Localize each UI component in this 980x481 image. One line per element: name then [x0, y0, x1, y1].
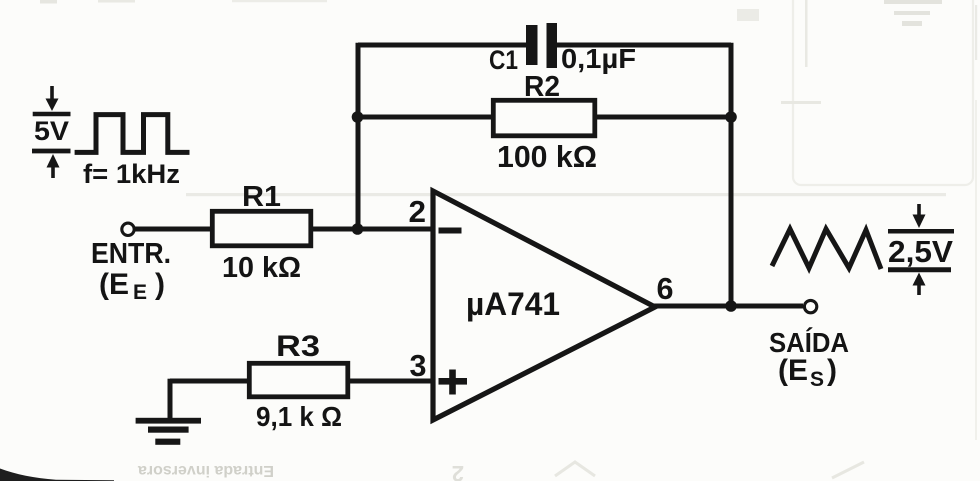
input terminal ENTR	[122, 223, 134, 235]
junction left R2 node	[352, 111, 364, 123]
resistor R1	[212, 211, 310, 246]
resistor R3	[249, 363, 347, 397]
junction right R2 node	[725, 111, 737, 123]
wire: R1 to op-amp pin 2	[311, 227, 433, 232]
svg-text:2: 2	[409, 194, 427, 229]
svg-text:R1: R1	[242, 181, 281, 213]
2,5V bottom bar	[888, 267, 951, 272]
svg-text:2,5V: 2,5V	[888, 234, 953, 269]
wire: feedback top right segment	[557, 43, 731, 48]
5V bottom bar	[32, 149, 71, 154]
faint bleed-through band	[186, 193, 946, 196]
2,5V top bar	[888, 229, 954, 234]
wire: R2 left	[358, 115, 493, 120]
wire: left vertical of feedback loop	[356, 43, 361, 229]
svg-text:): )	[155, 268, 165, 301]
wire: ground to R3	[170, 379, 251, 384]
svg-text:2: 2	[452, 461, 464, 481]
op-amp U1 triangle	[433, 191, 655, 420]
faint top edge marks	[40, 0, 57, 4]
plus sign non-inverting input	[439, 378, 468, 385]
wire: right vertical of feedback loop	[729, 43, 734, 306]
capacitor C1 plates	[526, 25, 538, 65]
svg-text:0,1µF: 0,1µF	[561, 43, 636, 74]
wire: op-amp output	[652, 304, 803, 309]
svg-text:R3: R3	[276, 330, 320, 363]
svg-text:ENTR.: ENTR.	[91, 238, 171, 270]
ground symbol	[136, 418, 201, 424]
faint bleed-through vertical line	[805, 0, 808, 67]
2,5V up arrow	[917, 284, 921, 295]
5V square wave annotation: down arrow	[50, 86, 54, 100]
wire: ground drop	[168, 379, 173, 420]
junction output node	[725, 300, 737, 312]
triangle wave output annotation	[772, 229, 881, 269]
output terminal SAIDA	[804, 300, 816, 312]
svg-text:Entrada inversora: Entrada inversora	[138, 462, 274, 479]
5V top bar	[33, 112, 71, 116]
wire: R2 right	[595, 115, 731, 120]
svg-text:100 kΩ: 100 kΩ	[497, 140, 597, 174]
svg-text:C1: C1	[489, 45, 518, 75]
2,5V down arrow	[917, 204, 921, 216]
wire: input to R1	[135, 227, 212, 232]
5V up arrow	[51, 166, 55, 178]
svg-text:f= 1kHz: f= 1kHz	[83, 159, 180, 189]
svg-text:(E: (E	[778, 354, 808, 387]
wire: R3 to op-amp pin 3	[348, 379, 433, 384]
svg-text:E: E	[133, 281, 147, 304]
page corner shadow bottom left	[0, 469, 114, 481]
svg-text:5V: 5V	[34, 116, 69, 146]
faint bleed-through box top right	[793, 0, 973, 185]
svg-text:(E: (E	[99, 268, 129, 301]
svg-text:): )	[827, 354, 837, 387]
minus sign inverting input	[439, 228, 462, 234]
svg-text:R2: R2	[524, 71, 560, 103]
faint bleed-through slash bottom right	[832, 462, 864, 478]
svg-text:10 kΩ: 10 kΩ	[222, 252, 301, 284]
resistor R2	[493, 100, 595, 136]
faint bleed-through chevron bottom middle	[555, 462, 595, 476]
svg-text:µA741: µA741	[466, 286, 560, 322]
svg-text:S: S	[810, 368, 824, 391]
faint bleed-through smudges top right	[737, 0, 942, 26]
junction node inverting input	[352, 223, 364, 235]
faint right edge noise	[975, 5, 977, 60]
square wave	[75, 115, 190, 153]
svg-text:3: 3	[410, 348, 427, 383]
faint bleed-through text bottom (mirrored)	[138, 462, 274, 479]
wire: feedback top left segment	[358, 43, 526, 48]
svg-text:6: 6	[657, 271, 674, 306]
svg-text:9,1 k Ω: 9,1 k Ω	[256, 401, 342, 432]
